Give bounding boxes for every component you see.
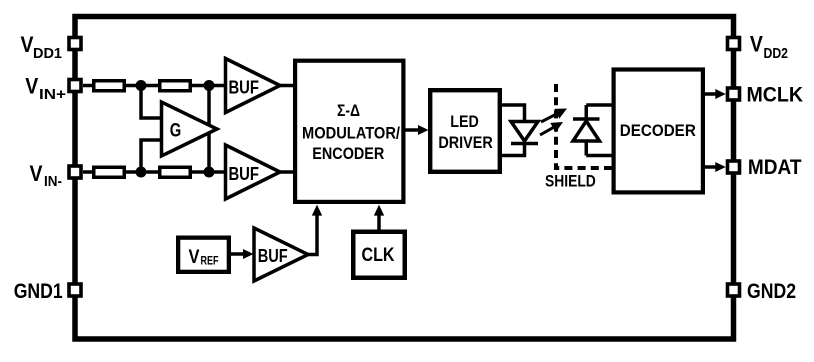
svg-text:V: V (189, 246, 200, 268)
svg-text:DRIVER: DRIVER (438, 133, 493, 152)
svg-text:IN-: IN- (44, 174, 62, 190)
svg-text:LED: LED (450, 112, 479, 131)
svg-text:ENCODER: ENCODER (312, 144, 384, 163)
svg-text:GND2: GND2 (747, 279, 796, 303)
svg-text:MODULATOR/: MODULATOR/ (302, 123, 400, 142)
svg-text:MCLK: MCLK (747, 82, 804, 106)
svg-text:G: G (170, 120, 182, 141)
svg-text:REF: REF (201, 254, 219, 268)
svg-text:IN+: IN+ (39, 87, 66, 103)
svg-text:DECODER: DECODER (620, 121, 696, 140)
svg-text:DD1: DD1 (33, 46, 62, 62)
svg-text:GND1: GND1 (14, 279, 63, 303)
svg-text:MDAT: MDAT (748, 155, 802, 179)
svg-text:BUF: BUF (228, 163, 259, 184)
svg-text:SHIELD: SHIELD (545, 172, 596, 190)
svg-text:V: V (25, 74, 38, 99)
svg-text:DD2: DD2 (764, 46, 789, 62)
svg-text:BUF: BUF (228, 76, 259, 97)
svg-text:Σ-Δ: Σ-Δ (337, 101, 360, 120)
svg-text:V: V (750, 32, 763, 57)
svg-text:CLK: CLK (362, 244, 395, 266)
svg-text:V: V (30, 161, 43, 186)
svg-text:V: V (21, 32, 34, 57)
svg-text:BUF: BUF (258, 245, 288, 266)
